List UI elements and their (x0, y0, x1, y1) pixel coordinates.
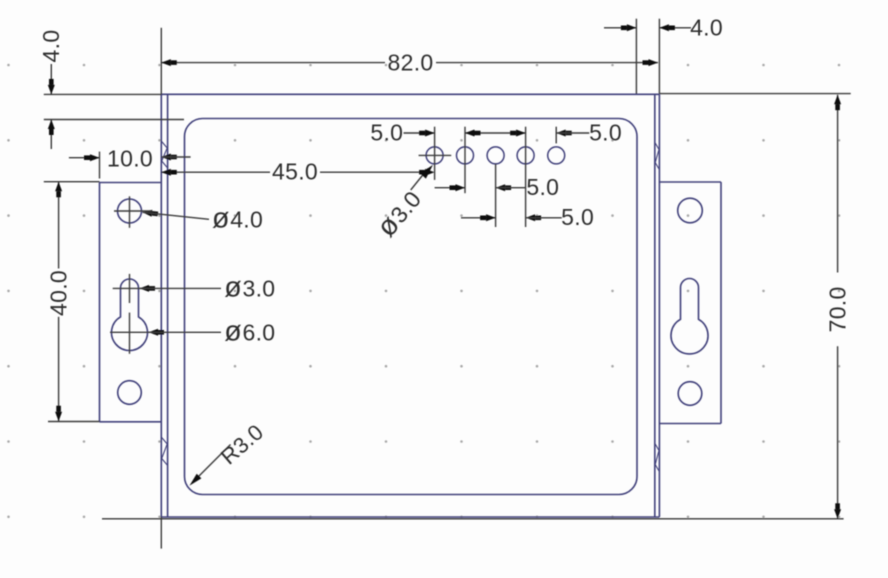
svg-text:82.0: 82.0 (388, 50, 434, 76)
svg-text:ø6.0: ø6.0 (224, 315, 275, 347)
svg-text:40.0: 40.0 (46, 270, 72, 316)
svg-text:45.0: 45.0 (272, 159, 318, 185)
svg-text:10.0: 10.0 (107, 146, 153, 172)
svg-text:5.0: 5.0 (561, 204, 594, 230)
svg-text:ø3.0: ø3.0 (224, 272, 275, 304)
svg-text:4.0: 4.0 (690, 15, 723, 41)
svg-text:4.0: 4.0 (38, 30, 64, 63)
svg-text:5.0: 5.0 (526, 174, 559, 200)
svg-text:5.0: 5.0 (370, 120, 403, 146)
svg-text:ø4.0: ø4.0 (212, 203, 263, 235)
svg-text:5.0: 5.0 (589, 120, 622, 146)
svg-text:70.0: 70.0 (825, 286, 851, 332)
